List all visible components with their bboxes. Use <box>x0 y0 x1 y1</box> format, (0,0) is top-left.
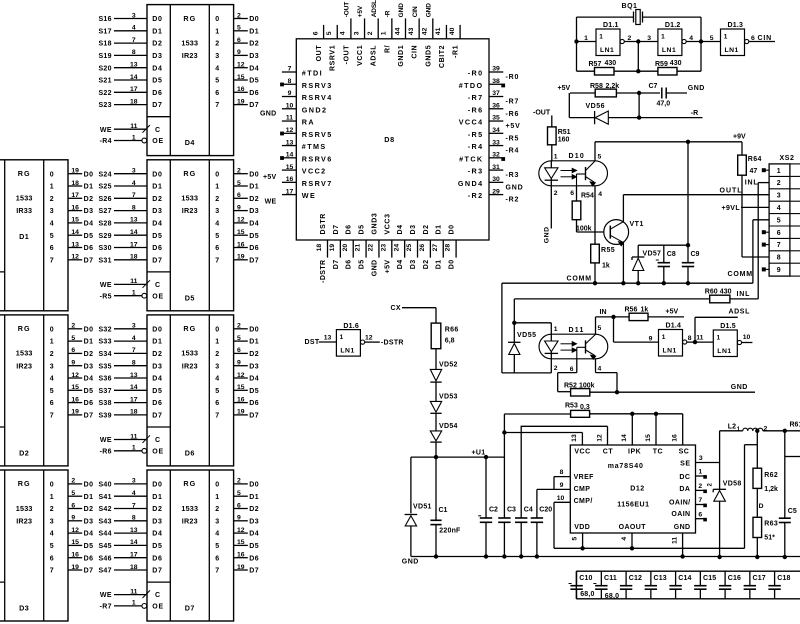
svg-text:VCC3: VCC3 <box>384 213 391 234</box>
svg-text:GND2: GND2 <box>302 105 328 114</box>
svg-text:GND: GND <box>426 3 433 18</box>
svg-text:5: 5 <box>215 388 219 395</box>
svg-text:CIN: CIN <box>758 35 772 42</box>
svg-text:C18: C18 <box>777 575 790 582</box>
svg-text:D7: D7 <box>152 568 162 575</box>
resistor R58 <box>570 83 660 97</box>
svg-text:6: 6 <box>237 347 241 354</box>
svg-text:D6: D6 <box>249 555 259 562</box>
svg-text:7: 7 <box>50 413 54 420</box>
capacitor C20 <box>531 489 553 558</box>
svg-text:1: 1 <box>554 326 558 333</box>
svg-text:OAIN/: OAIN/ <box>669 499 690 506</box>
optocoupler D11 <box>539 323 608 373</box>
svg-text:5: 5 <box>50 233 54 240</box>
svg-text:-R: -R <box>385 10 392 17</box>
svg-text:D1: D1 <box>249 184 259 191</box>
svg-text:18: 18 <box>130 98 138 105</box>
svg-text:15: 15 <box>237 384 245 391</box>
svg-text:D6: D6 <box>84 400 94 407</box>
svg-text:C3: C3 <box>507 507 516 514</box>
svg-text:3: 3 <box>132 478 136 485</box>
wire <box>502 283 551 373</box>
svg-text:30: 30 <box>492 176 500 183</box>
svg-text:IR23: IR23 <box>182 516 198 525</box>
svg-text:S34: S34 <box>98 351 111 358</box>
svg-text:43: 43 <box>408 27 415 35</box>
svg-text:D3: D3 <box>84 208 94 215</box>
wire <box>719 431 721 489</box>
svg-text:14: 14 <box>130 384 138 391</box>
svg-text:S31: S31 <box>98 257 111 264</box>
svg-text:4: 4 <box>598 191 602 198</box>
svg-text:8: 8 <box>777 255 781 262</box>
svg-text:D7: D7 <box>152 257 162 264</box>
svg-text:8: 8 <box>132 515 136 522</box>
svg-text:2: 2 <box>698 483 702 490</box>
wire <box>577 35 776 42</box>
svg-text:COMM: COMM <box>728 271 753 278</box>
resistor R59 <box>638 60 701 75</box>
svg-text:D4: D4 <box>249 221 259 228</box>
svg-text:VD52: VD52 <box>439 361 458 368</box>
svg-text:D7: D7 <box>152 102 162 109</box>
svg-text:D4: D4 <box>152 531 162 538</box>
svg-text:4: 4 <box>132 25 136 32</box>
svg-text:160: 160 <box>558 137 570 144</box>
wire <box>596 359 618 392</box>
svg-text:S18: S18 <box>98 41 111 48</box>
svg-text:-R1: -R1 <box>453 45 460 58</box>
capacitor C4 <box>515 426 533 558</box>
svg-text:C: C <box>155 282 160 289</box>
resistor R55 <box>591 244 615 285</box>
svg-text:D7: D7 <box>249 568 259 575</box>
svg-text:17: 17 <box>130 396 138 403</box>
svg-text:#TDI: #TDI <box>302 69 323 78</box>
svg-text:2: 2 <box>215 506 219 513</box>
svg-text:RG: RG <box>183 169 196 178</box>
svg-text:24: 24 <box>393 244 400 252</box>
svg-text:D4: D4 <box>185 138 195 147</box>
svg-text:5: 5 <box>215 233 219 240</box>
svg-text:RG: RG <box>18 324 31 333</box>
svg-text:1: 1 <box>584 35 588 42</box>
resistor R64 <box>738 142 769 257</box>
svg-text:2: 2 <box>367 31 374 35</box>
svg-text:7: 7 <box>50 257 54 264</box>
diode VD56 <box>569 91 702 124</box>
svg-text:5: 5 <box>326 31 333 35</box>
svg-text:D5: D5 <box>152 388 162 395</box>
svg-text:2: 2 <box>237 168 241 175</box>
svg-text:4: 4 <box>132 180 136 187</box>
svg-text:D6: D6 <box>84 245 94 252</box>
wire <box>319 335 337 342</box>
svg-text:14: 14 <box>130 229 138 236</box>
svg-text:2: 2 <box>237 12 241 19</box>
svg-text:4: 4 <box>621 537 628 541</box>
wire <box>575 40 703 73</box>
svg-text:L2: L2 <box>728 424 736 431</box>
resistor R62 <box>753 431 778 518</box>
svg-text:D1: D1 <box>152 28 162 35</box>
svg-text:GND: GND <box>371 260 378 277</box>
svg-text:C5: C5 <box>788 508 797 515</box>
svg-text:C20: C20 <box>539 507 552 514</box>
svg-text:VD53: VD53 <box>439 394 458 401</box>
svg-text:VCC2: VCC2 <box>302 167 327 176</box>
svg-text:23: 23 <box>380 244 387 252</box>
svg-text:D1: D1 <box>152 339 162 346</box>
svg-text:7: 7 <box>132 347 136 354</box>
svg-text:17: 17 <box>130 552 138 559</box>
svg-text:16: 16 <box>286 176 294 183</box>
svg-text:CX: CX <box>391 305 401 312</box>
svg-text:WE: WE <box>100 127 112 134</box>
capacitor C5 <box>779 431 800 559</box>
svg-text:3: 3 <box>777 193 781 200</box>
svg-text:D0: D0 <box>249 16 259 23</box>
svg-text:430: 430 <box>670 60 682 67</box>
svg-text:18: 18 <box>130 564 138 571</box>
svg-text:51*: 51* <box>764 535 775 542</box>
svg-text:0: 0 <box>50 171 54 178</box>
svg-text:D0: D0 <box>249 482 259 489</box>
svg-text:11: 11 <box>130 433 137 440</box>
svg-text:5: 5 <box>50 388 54 395</box>
svg-text:CBIT2: CBIT2 <box>439 45 446 68</box>
svg-text:GND5: GND5 <box>425 45 432 67</box>
svg-text:13: 13 <box>324 335 332 342</box>
svg-text:31: 31 <box>492 164 500 171</box>
svg-text:D7: D7 <box>249 257 259 264</box>
svg-text:RG: RG <box>18 169 31 178</box>
svg-text:3: 3 <box>50 363 54 370</box>
svg-text:16: 16 <box>71 396 79 403</box>
svg-text:-R7: -R7 <box>100 604 112 611</box>
wire <box>594 142 596 161</box>
svg-text:430: 430 <box>605 60 617 67</box>
svg-text:C4: C4 <box>524 507 533 514</box>
svg-text:D6: D6 <box>249 400 259 407</box>
wire rail <box>554 547 745 549</box>
resistor R63 <box>753 517 778 558</box>
svg-text:RG: RG <box>18 479 31 488</box>
svg-text:-R7: -R7 <box>506 99 520 106</box>
svg-text:42: 42 <box>422 27 429 35</box>
inverter D1.4 <box>659 323 687 356</box>
diode VD55 <box>508 323 536 373</box>
svg-text:LN1: LN1 <box>725 47 739 54</box>
node -OUT <box>533 110 551 117</box>
svg-text:C12: C12 <box>629 575 642 582</box>
svg-text:2: 2 <box>554 365 558 372</box>
svg-text:3: 3 <box>215 53 219 60</box>
svg-text:1: 1 <box>215 28 219 35</box>
svg-text:1533: 1533 <box>181 504 198 513</box>
svg-text:R62: R62 <box>764 472 778 479</box>
wire <box>576 186 578 201</box>
svg-text:2: 2 <box>554 190 558 197</box>
svg-text:1533: 1533 <box>16 194 33 203</box>
svg-text:1: 1 <box>554 154 558 161</box>
svg-text:C: C <box>155 437 160 444</box>
svg-text:C11: C11 <box>604 575 617 582</box>
svg-text:1: 1 <box>340 334 344 341</box>
svg-text:D7: D7 <box>185 604 195 613</box>
svg-text:D2: D2 <box>84 506 94 513</box>
node GND <box>688 85 705 92</box>
svg-text:S30: S30 <box>98 245 111 252</box>
svg-text:VD56: VD56 <box>586 103 606 110</box>
resistor R54 <box>572 192 610 232</box>
svg-text:+5V: +5V <box>263 174 277 181</box>
svg-text:D11: D11 <box>569 327 585 334</box>
svg-text:2: 2 <box>50 351 54 358</box>
svg-text:D4: D4 <box>397 224 404 234</box>
svg-text:OUT: OUT <box>316 45 323 62</box>
svg-text:38: 38 <box>492 78 500 85</box>
svg-text:40: 40 <box>449 27 456 35</box>
svg-text:-R4: -R4 <box>468 142 484 151</box>
svg-text:S33: S33 <box>98 339 111 346</box>
svg-text:2: 2 <box>237 478 241 485</box>
svg-text:1: 1 <box>724 34 728 41</box>
svg-text:1: 1 <box>132 600 136 607</box>
svg-text:16: 16 <box>71 552 79 559</box>
svg-text:+5V: +5V <box>357 5 364 17</box>
svg-text:8: 8 <box>132 360 136 367</box>
svg-text:D0: D0 <box>249 326 259 333</box>
svg-text:OUTL: OUTL <box>720 187 743 194</box>
svg-text:5: 5 <box>237 490 241 497</box>
svg-text:D0: D0 <box>449 260 456 270</box>
svg-text:-R3: -R3 <box>468 167 484 176</box>
svg-text:C15: C15 <box>703 575 716 582</box>
svg-text:1: 1 <box>661 34 665 41</box>
wire <box>753 220 769 283</box>
svg-text:D6: D6 <box>185 449 195 458</box>
wire <box>550 359 552 373</box>
svg-text:R56: R56 <box>625 307 638 314</box>
svg-text:+5V: +5V <box>384 260 391 274</box>
svg-text:S32: S32 <box>98 326 111 333</box>
svg-text:4: 4 <box>50 531 54 538</box>
capacitor bank C10-C18 <box>569 571 800 599</box>
svg-text:C10: C10 <box>579 575 592 582</box>
svg-text:1533: 1533 <box>181 194 198 203</box>
svg-text:C2: C2 <box>489 507 498 514</box>
svg-text:8: 8 <box>560 469 564 476</box>
svg-text:D2: D2 <box>423 224 430 234</box>
svg-text:16: 16 <box>237 86 245 93</box>
svg-text:+9VL: +9VL <box>722 205 741 212</box>
svg-text:VD51: VD51 <box>413 504 432 511</box>
diode VD51 <box>405 504 432 557</box>
svg-text:IR23: IR23 <box>16 361 32 370</box>
svg-text:D6: D6 <box>346 260 353 270</box>
zener diode VD58 <box>708 480 742 558</box>
svg-text:15: 15 <box>237 539 245 546</box>
svg-text:0: 0 <box>50 482 54 489</box>
svg-text:VD54: VD54 <box>439 423 458 430</box>
svg-text:D5: D5 <box>359 224 366 234</box>
register D7 <box>98 470 259 621</box>
svg-text:XS2: XS2 <box>780 155 795 162</box>
svg-text:C8: C8 <box>667 251 676 258</box>
svg-text:S27: S27 <box>98 208 111 215</box>
svg-text:RG: RG <box>183 324 196 333</box>
svg-text:GND3: GND3 <box>371 213 378 235</box>
svg-text:S42: S42 <box>98 506 111 513</box>
svg-text:1k: 1k <box>641 307 649 314</box>
svg-text:R54: R54 <box>581 192 594 199</box>
svg-text:12: 12 <box>286 127 294 134</box>
svg-text:36: 36 <box>492 102 500 109</box>
svg-text:16: 16 <box>71 204 79 211</box>
svg-text:IR23: IR23 <box>182 361 198 370</box>
svg-text:WE: WE <box>265 198 277 205</box>
capacitor C9 <box>682 142 700 285</box>
svg-text:4: 4 <box>598 365 602 372</box>
wire +9V rail <box>595 133 746 143</box>
svg-text:18: 18 <box>130 409 138 416</box>
svg-text:C14: C14 <box>678 575 691 582</box>
svg-text:D: D <box>759 503 764 510</box>
svg-text:D2: D2 <box>152 351 162 358</box>
svg-text:#TDO: #TDO <box>459 81 484 90</box>
svg-text:17: 17 <box>130 241 138 248</box>
wire <box>577 17 702 71</box>
svg-text:GND: GND <box>688 85 705 92</box>
svg-text:3: 3 <box>132 323 136 330</box>
svg-text:22: 22 <box>368 244 375 252</box>
svg-text:RSRV4: RSRV4 <box>302 93 333 102</box>
svg-text:S23: S23 <box>98 102 111 109</box>
svg-text:5: 5 <box>237 25 241 32</box>
svg-text:15: 15 <box>645 434 652 442</box>
svg-text:19: 19 <box>237 409 245 416</box>
svg-text:3: 3 <box>50 208 54 215</box>
svg-text:1: 1 <box>50 494 54 501</box>
svg-text:D1: D1 <box>152 494 162 501</box>
svg-text:6: 6 <box>570 190 574 197</box>
svg-text:1: 1 <box>50 339 54 346</box>
svg-text:5: 5 <box>598 325 602 332</box>
svg-text:D4: D4 <box>152 221 162 228</box>
svg-text:10: 10 <box>743 334 751 341</box>
svg-text:S45: S45 <box>98 543 111 550</box>
svg-text:D4: D4 <box>249 531 259 538</box>
svg-text:4: 4 <box>50 376 54 383</box>
svg-text:2: 2 <box>50 196 54 203</box>
svg-text:19: 19 <box>71 564 79 571</box>
svg-text:33: 33 <box>492 139 500 146</box>
svg-text:OE: OE <box>152 604 164 611</box>
svg-text:S35: S35 <box>98 363 111 370</box>
svg-text:15: 15 <box>237 74 245 81</box>
svg-text:3: 3 <box>699 455 703 462</box>
svg-text:D3: D3 <box>84 518 94 525</box>
svg-text:1533: 1533 <box>181 38 198 47</box>
register D2 <box>0 315 94 466</box>
svg-text:D7: D7 <box>84 257 94 264</box>
svg-text:4: 4 <box>215 221 219 228</box>
svg-text:VD55: VD55 <box>517 332 537 339</box>
svg-text:15: 15 <box>237 229 245 236</box>
svg-text:47,0: 47,0 <box>657 101 671 108</box>
svg-text:9: 9 <box>237 204 241 211</box>
svg-text:19: 19 <box>71 409 79 416</box>
svg-text:4: 4 <box>340 31 347 35</box>
svg-text:OE: OE <box>152 138 164 145</box>
svg-text:CT: CT <box>603 448 614 455</box>
svg-text:2: 2 <box>215 351 219 358</box>
svg-text:VCC: VCC <box>574 448 590 455</box>
wire -DSTR <box>365 334 404 346</box>
svg-text:3: 3 <box>215 208 219 215</box>
svg-text:D7: D7 <box>84 568 94 575</box>
value 68,0 <box>580 591 594 598</box>
svg-text:LN1: LN1 <box>600 47 614 54</box>
svg-text:12: 12 <box>71 527 79 534</box>
svg-text:13: 13 <box>130 217 138 224</box>
svg-text:14: 14 <box>71 229 79 236</box>
svg-text:13: 13 <box>130 527 138 534</box>
svg-text:68,0: 68,0 <box>580 591 594 598</box>
svg-text:32: 32 <box>492 152 500 159</box>
svg-text:COMM: COMM <box>567 276 592 283</box>
svg-text:0: 0 <box>215 482 219 489</box>
svg-text:D2: D2 <box>152 196 162 203</box>
svg-text:S38: S38 <box>98 400 111 407</box>
diode VD53 <box>430 394 457 431</box>
svg-text:4: 4 <box>132 335 136 342</box>
svg-text:1: 1 <box>50 184 54 191</box>
svg-text:D1: D1 <box>436 224 443 234</box>
svg-text:14: 14 <box>621 434 628 442</box>
svg-text:1: 1 <box>215 494 219 501</box>
svg-text:D0: D0 <box>152 171 162 178</box>
svg-text:D6: D6 <box>152 400 162 407</box>
svg-text:12: 12 <box>237 527 245 534</box>
svg-text:D3: D3 <box>410 260 417 270</box>
wire INL <box>730 180 769 299</box>
wire <box>742 334 753 343</box>
wire <box>402 308 436 323</box>
svg-text:1: 1 <box>215 184 219 191</box>
svg-text:D1.1: D1.1 <box>603 22 619 29</box>
svg-text:RG: RG <box>183 14 196 23</box>
svg-text:12: 12 <box>71 254 79 261</box>
svg-text:S29: S29 <box>98 233 111 240</box>
svg-text:-R4: -R4 <box>100 138 112 145</box>
svg-text:D1.5: D1.5 <box>720 323 736 330</box>
svg-text:6: 6 <box>50 245 54 252</box>
svg-text:D2: D2 <box>249 41 259 48</box>
svg-text:12: 12 <box>71 372 79 379</box>
svg-text:1156EU1: 1156EU1 <box>617 501 649 508</box>
svg-text:29: 29 <box>492 188 500 195</box>
svg-text:D4: D4 <box>249 376 259 383</box>
svg-text:39: 39 <box>492 66 500 73</box>
svg-text:D2: D2 <box>19 449 29 458</box>
svg-text:LN1: LN1 <box>340 348 354 355</box>
svg-text:D7: D7 <box>333 260 340 270</box>
svg-text:-OUT: -OUT <box>344 2 351 18</box>
svg-text:D7: D7 <box>249 413 259 420</box>
